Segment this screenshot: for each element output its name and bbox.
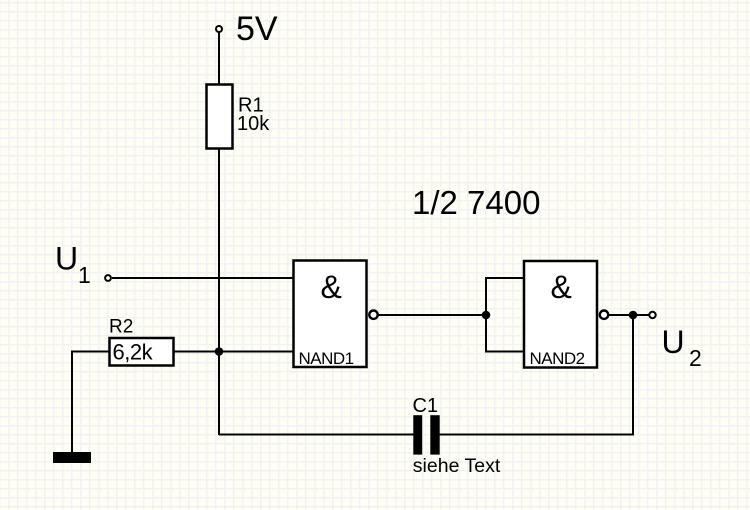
wire NAND2 output to terminal <box>608 314 649 316</box>
wire U1 to NAND1 input A <box>112 277 294 279</box>
wire NAND1 output to NAND2 inputs <box>378 314 486 316</box>
ground <box>53 452 91 463</box>
nand gate NAND1 <box>294 261 367 368</box>
svg-text:1/2 7400: 1/2 7400 <box>412 184 540 221</box>
bubble NAND1 output <box>369 311 377 319</box>
wire NAND2 input tie vertical <box>485 277 487 352</box>
svg-text:NAND2: NAND2 <box>530 349 585 368</box>
svg-text:1: 1 <box>78 262 91 288</box>
svg-text:R2: R2 <box>109 317 133 338</box>
svg-text:U: U <box>55 241 78 277</box>
wire to NAND2 input A <box>485 277 524 279</box>
wire 5V to R1 <box>218 32 220 85</box>
wire to NAND2 input B <box>485 351 524 353</box>
node junction NAND2 inputs <box>482 311 491 320</box>
svg-text:&: & <box>321 269 342 305</box>
terminal U1 <box>105 275 111 281</box>
wire feedback left segment <box>219 434 414 436</box>
svg-text:6,2k: 6,2k <box>113 340 154 365</box>
svg-text:5V: 5V <box>236 10 278 48</box>
svg-text:&: & <box>551 269 572 305</box>
node junction output <box>629 311 638 320</box>
svg-text:2: 2 <box>689 345 702 371</box>
svg-text:siehe Text: siehe Text <box>413 455 501 477</box>
wire output down to feedback row <box>632 315 634 436</box>
node junction R1/R2 <box>215 347 224 356</box>
wire R1 down to feedback row <box>218 148 220 435</box>
capacitor C1 plate right <box>430 415 439 454</box>
svg-text:C1: C1 <box>413 395 439 417</box>
svg-text:NAND1: NAND1 <box>299 349 354 368</box>
resistor R2 <box>110 338 174 366</box>
resistor R1 <box>207 85 233 149</box>
nand gate NAND2 <box>524 261 597 368</box>
svg-text:10k: 10k <box>237 113 270 135</box>
terminal U2 <box>649 312 655 318</box>
terminal 5V <box>216 26 222 32</box>
wire R2 right to NAND1 input B <box>174 351 294 353</box>
svg-text:U: U <box>662 324 685 360</box>
capacitor C1 plate left <box>413 415 422 454</box>
bubble NAND2 output <box>600 311 608 319</box>
wire feedback right segment <box>440 434 635 436</box>
wire R2 left to ground <box>72 352 109 453</box>
